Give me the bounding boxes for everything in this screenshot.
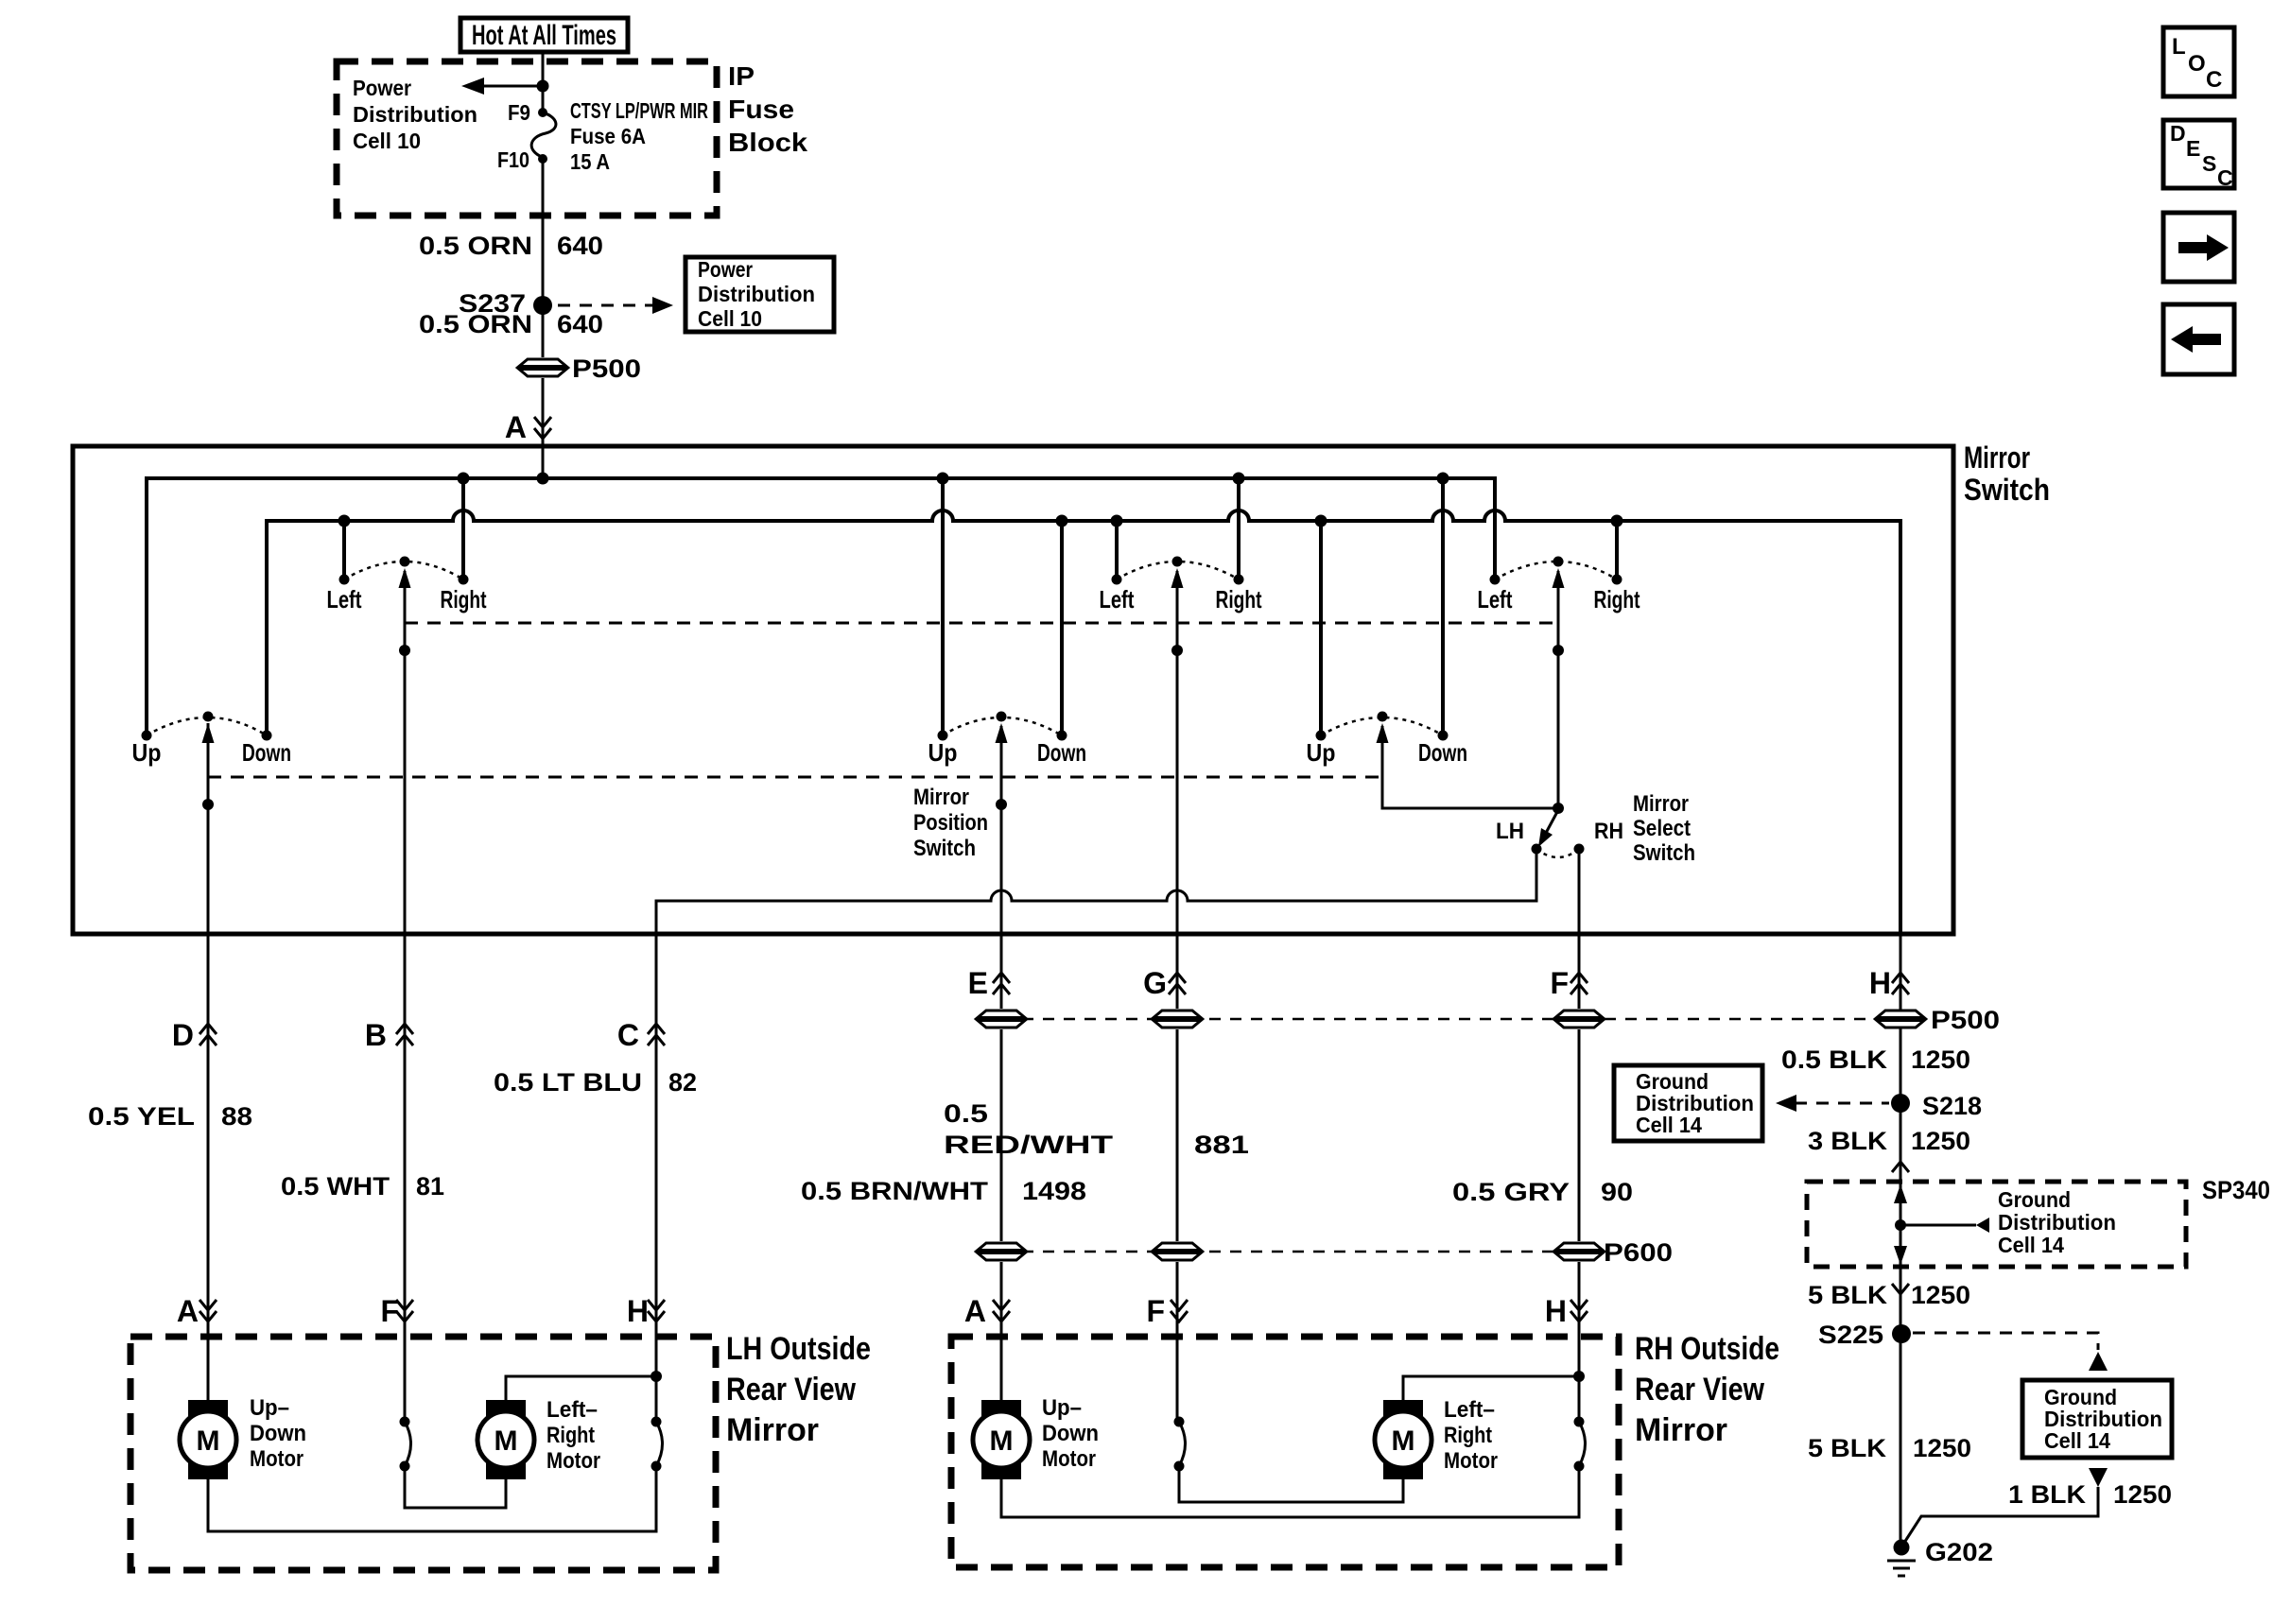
node S218 bbox=[1891, 1092, 1982, 1120]
svg-text:C: C bbox=[617, 1018, 639, 1052]
Mirror Position Switch label bbox=[913, 785, 988, 861]
DESC nav box bbox=[2163, 120, 2234, 190]
svg-text:881: 881 bbox=[1194, 1131, 1249, 1159]
svg-text:Mirror: Mirror bbox=[1635, 1412, 1727, 1448]
svg-text:Power: Power bbox=[353, 76, 411, 100]
svg-text:5 BLK: 5 BLK bbox=[1808, 1434, 1887, 1462]
svg-text:Distribution: Distribution bbox=[698, 282, 815, 306]
svg-text:1250: 1250 bbox=[1913, 1434, 1971, 1462]
svg-text:H: H bbox=[627, 1294, 649, 1328]
connector P500 pin H bbox=[1876, 1006, 2000, 1034]
pin F of RH mirror bbox=[1146, 1294, 1188, 1328]
svg-text:0.5 YEL: 0.5 YEL bbox=[88, 1102, 195, 1131]
RH left-right motor M bbox=[1375, 1397, 1498, 1479]
svg-text:A: A bbox=[964, 1294, 986, 1328]
switch contacts position switch Up/Down bbox=[928, 712, 1087, 768]
svg-text:S225: S225 bbox=[1818, 1321, 1883, 1349]
svg-text:640: 640 bbox=[557, 232, 603, 260]
pin H of mirror switch bbox=[1869, 966, 1909, 1000]
svg-text:0.5 GRY: 0.5 GRY bbox=[1452, 1178, 1570, 1206]
svg-text:A: A bbox=[505, 410, 527, 444]
svg-text:S: S bbox=[2202, 151, 2216, 176]
svg-text:0.5 LT BLU: 0.5 LT BLU bbox=[494, 1068, 642, 1097]
svg-text:Distribution: Distribution bbox=[1998, 1210, 2116, 1235]
wire label 0.5 WHT 81 bbox=[281, 1172, 444, 1201]
Mirror Select Switch bbox=[1496, 791, 1695, 866]
svg-text:Right: Right bbox=[1444, 1423, 1492, 1448]
wire H pin ground chain bbox=[1900, 934, 1902, 1547]
svg-text:Rear View: Rear View bbox=[726, 1372, 856, 1408]
svg-text:Left–: Left– bbox=[547, 1397, 598, 1423]
dashed reference arrow S218 to Ground Distribution Cell 14 bbox=[1776, 1095, 1889, 1112]
svg-text:Mirror: Mirror bbox=[1964, 441, 2030, 475]
svg-text:5 BLK: 5 BLK bbox=[1808, 1281, 1888, 1309]
RH connector contact on H wire bbox=[1574, 1417, 1586, 1472]
node S225 bbox=[1818, 1321, 1911, 1349]
connector P500 row dashed link bbox=[1001, 1018, 1900, 1021]
svg-text:Ground: Ground bbox=[1998, 1187, 2071, 1212]
connector P500 pin E bbox=[977, 1009, 1026, 1029]
svg-text:RH Outside: RH Outside bbox=[1635, 1331, 1779, 1367]
wire bus2 to LH Left contact bbox=[342, 521, 346, 579]
RH Outside Rear View Mirror box bbox=[951, 1331, 1779, 1567]
wire: power bus 1 bbox=[147, 478, 1495, 735]
switch contacts LH mirror Up/Down bbox=[132, 712, 292, 768]
next-page arrow box bbox=[2163, 213, 2234, 282]
svg-text:Motor: Motor bbox=[1042, 1446, 1096, 1472]
svg-text:Switch: Switch bbox=[1964, 473, 2050, 507]
svg-text:LH: LH bbox=[1496, 819, 1524, 844]
svg-text:LH Outside: LH Outside bbox=[726, 1331, 871, 1367]
svg-text:G202: G202 bbox=[1925, 1538, 1993, 1566]
svg-text:H: H bbox=[1869, 966, 1891, 1000]
svg-text:0.5 WHT: 0.5 WHT bbox=[281, 1172, 390, 1201]
connector P600 pin H bbox=[1554, 1238, 1673, 1267]
svg-text:Down: Down bbox=[250, 1421, 306, 1446]
svg-text:Motor: Motor bbox=[547, 1448, 600, 1474]
wire label 0.5 BLK 1250 bbox=[1781, 1045, 1970, 1074]
pin E of mirror switch bbox=[968, 966, 1010, 1000]
svg-text:F10: F10 bbox=[497, 147, 529, 172]
switch contacts position switch Left/Right bbox=[1100, 557, 1262, 614]
dashed gang line Left/Right wipers bbox=[405, 622, 1558, 625]
IP Fuse Block dashed box bbox=[337, 61, 807, 216]
svg-text:L: L bbox=[2172, 34, 2186, 60]
svg-text:1250: 1250 bbox=[1911, 1281, 1970, 1309]
wire RH up/down wiper to select switch bbox=[1382, 726, 1558, 808]
wire bus2 to center Down contact bbox=[1060, 521, 1064, 735]
svg-text:G: G bbox=[1143, 966, 1167, 1000]
wire label 0.5 YEL 88 bbox=[88, 1102, 252, 1131]
svg-text:Up: Up bbox=[132, 738, 162, 767]
svg-text:F: F bbox=[1550, 966, 1569, 1000]
svg-text:Right: Right bbox=[1594, 585, 1640, 613]
wire wiper D column bbox=[202, 723, 214, 1400]
fuse F9/F10 CTSY LP/PWR MIR Fuse 6A 15A bbox=[497, 98, 708, 174]
switch contacts RH mirror Left/Right bbox=[1478, 557, 1640, 614]
single chevron out of SP340 bbox=[1892, 1284, 1909, 1294]
svg-text:Mirror: Mirror bbox=[726, 1412, 819, 1448]
svg-text:Fuse: Fuse bbox=[728, 95, 794, 124]
wire wiper E column bbox=[996, 726, 1007, 1400]
wire label 5 BLK 1250 (lower) bbox=[1808, 1434, 1971, 1462]
wire LH H pin to left-right motor top bbox=[506, 1371, 662, 1400]
svg-text:A: A bbox=[177, 1294, 199, 1328]
Power Distribution Cell 10 reference box bbox=[685, 257, 834, 332]
svg-text:S218: S218 bbox=[1922, 1092, 1982, 1120]
svg-text:1250: 1250 bbox=[1911, 1045, 1970, 1074]
svg-text:RH: RH bbox=[1594, 819, 1623, 844]
wire LH up-down motor return bbox=[208, 1466, 656, 1531]
pin H of LH mirror bbox=[627, 1294, 665, 1328]
Hot At All Times box bbox=[460, 18, 628, 52]
LH left-right motor M bbox=[477, 1397, 600, 1479]
svg-text:1250: 1250 bbox=[2113, 1480, 2172, 1509]
svg-text:Rear View: Rear View bbox=[1635, 1372, 1764, 1408]
svg-text:Up–: Up– bbox=[250, 1395, 289, 1421]
wire select RH contact to pin F bbox=[1578, 849, 1581, 1422]
svg-text:Left–: Left– bbox=[1444, 1397, 1495, 1423]
wire RH up-down motor return bbox=[1001, 1466, 1579, 1517]
svg-text:15 A: 15 A bbox=[570, 149, 610, 174]
svg-text:82: 82 bbox=[668, 1068, 697, 1097]
pin H of RH mirror bbox=[1545, 1294, 1588, 1328]
svg-text:RED/WHT: RED/WHT bbox=[944, 1131, 1114, 1159]
connector P500 (top) bbox=[518, 354, 641, 383]
Ground Distribution Cell 14 reference box (S218) bbox=[1614, 1065, 1762, 1141]
svg-text:M: M bbox=[1392, 1425, 1415, 1457]
ground G202 bbox=[1887, 1538, 1993, 1576]
LH Outside Rear View Mirror box bbox=[130, 1331, 871, 1570]
svg-text:Cell 10: Cell 10 bbox=[698, 306, 762, 331]
connector P500 pin F bbox=[1554, 1009, 1604, 1029]
svg-text:E: E bbox=[968, 966, 988, 1000]
svg-text:Mirror: Mirror bbox=[1633, 791, 1689, 817]
SP340 junction node bbox=[1895, 1219, 1906, 1231]
wire bus2 to center Left contact bbox=[1115, 521, 1119, 579]
Mirror Switch box bbox=[73, 441, 2050, 934]
node S237 bbox=[459, 289, 552, 318]
svg-text:Up–: Up– bbox=[1042, 1395, 1082, 1421]
svg-text:O: O bbox=[2188, 51, 2206, 77]
wire bus1 to RH Down contact bbox=[1441, 478, 1445, 735]
svg-text:640: 640 bbox=[557, 310, 603, 338]
svg-text:CTSY LP/PWR MIR: CTSY LP/PWR MIR bbox=[570, 98, 708, 123]
LH connector contact on H wire bbox=[651, 1417, 663, 1472]
svg-text:B: B bbox=[365, 1018, 387, 1052]
Ground Distribution Cell 14 reference box (G202) bbox=[2022, 1380, 2172, 1458]
wire RH H pin to left-right motor top bbox=[1403, 1371, 1585, 1400]
wire: power bus 2 bbox=[267, 510, 1900, 934]
LH connector contact on F wire bbox=[400, 1417, 411, 1472]
svg-text:Right: Right bbox=[1216, 585, 1262, 613]
svg-text:0.5: 0.5 bbox=[944, 1099, 988, 1128]
svg-text:1498: 1498 bbox=[1022, 1177, 1086, 1205]
wire label 0.5 GRY 90 bbox=[1452, 1178, 1633, 1206]
svg-text:Down: Down bbox=[1042, 1421, 1099, 1446]
RH connector contact on F wire bbox=[1174, 1417, 1186, 1472]
svg-text:Motor: Motor bbox=[250, 1446, 304, 1472]
wire label 0.5 LT BLU 82 bbox=[494, 1068, 697, 1097]
pin F of LH mirror bbox=[380, 1294, 413, 1328]
svg-text:0.5 ORN: 0.5 ORN bbox=[419, 232, 532, 260]
svg-text:Switch: Switch bbox=[1633, 840, 1695, 866]
svg-text:Cell 14: Cell 14 bbox=[1636, 1113, 1702, 1137]
svg-text:M: M bbox=[495, 1425, 518, 1457]
wire label 0.5 RED/WHT 881 bbox=[944, 1099, 1249, 1159]
svg-text:Distribution: Distribution bbox=[353, 102, 477, 127]
svg-text:SP340: SP340 bbox=[2202, 1176, 2270, 1204]
svg-text:0.5 BRN/WHT: 0.5 BRN/WHT bbox=[801, 1177, 989, 1205]
dashed reference arrow from S237 to Power Distribution Cell 10 bbox=[558, 297, 673, 314]
pin A of LH mirror bbox=[177, 1294, 217, 1328]
wire RH left/right wiper to select switch bbox=[1553, 571, 1564, 814]
svg-text:Up: Up bbox=[928, 738, 958, 767]
LOC nav box bbox=[2163, 27, 2234, 96]
svg-text:Fuse 6A: Fuse 6A bbox=[570, 124, 646, 148]
svg-text:E: E bbox=[2186, 136, 2200, 161]
wire arrow to Power Distribution Cell 10 bbox=[353, 76, 543, 153]
wire RH F contact to left-right motor bbox=[1179, 1466, 1403, 1502]
SP340 exit arrow bbox=[1894, 1246, 1907, 1265]
svg-text:IP: IP bbox=[728, 61, 755, 91]
wire select LH contact to pin C bbox=[656, 849, 1536, 1422]
svg-text:H: H bbox=[1545, 1294, 1567, 1328]
svg-text:Right: Right bbox=[441, 585, 487, 613]
svg-text:1250: 1250 bbox=[1911, 1127, 1970, 1155]
connector P600 pin A bbox=[977, 1241, 1026, 1262]
SP340 entry arrow bbox=[1894, 1184, 1907, 1203]
wire F10 to S237 (0.5 ORN 640) bbox=[419, 159, 603, 305]
wire wiper B column bbox=[399, 571, 410, 1422]
svg-text:Select: Select bbox=[1633, 816, 1691, 841]
wire junction to F9 bbox=[542, 86, 545, 112]
1 BLK exit arrow from reference box bbox=[2089, 1468, 2108, 1487]
svg-text:Left: Left bbox=[1478, 585, 1513, 613]
LH up-down motor M bbox=[180, 1395, 306, 1479]
pin G of mirror switch bbox=[1143, 966, 1186, 1000]
svg-text:F9: F9 bbox=[508, 100, 530, 125]
svg-text:Block: Block bbox=[728, 128, 807, 157]
svg-text:Position: Position bbox=[913, 810, 988, 836]
wire wiper G column bbox=[1171, 571, 1183, 1422]
svg-text:Left: Left bbox=[327, 585, 362, 613]
svg-text:M: M bbox=[197, 1425, 220, 1457]
svg-text:Cell 14: Cell 14 bbox=[1998, 1233, 2064, 1257]
svg-text:Hot At All Times: Hot At All Times bbox=[472, 20, 616, 51]
svg-text:P600: P600 bbox=[1604, 1238, 1673, 1267]
svg-text:F: F bbox=[380, 1294, 399, 1328]
svg-text:Cell 10: Cell 10 bbox=[353, 129, 421, 153]
SP340 splice pack dashed box bbox=[1807, 1176, 2270, 1267]
connector P500 pin G bbox=[1153, 1009, 1202, 1029]
svg-text:88: 88 bbox=[221, 1102, 252, 1131]
svg-text:Down: Down bbox=[1037, 738, 1086, 767]
switch contacts LH mirror Left/Right bbox=[327, 557, 487, 614]
svg-text:Up: Up bbox=[1307, 738, 1336, 767]
connector P600 row dashed link bbox=[1001, 1251, 1579, 1253]
wire bus1 to LH Right contact bbox=[461, 478, 465, 579]
single chevron into SP340 bbox=[1892, 1162, 1909, 1172]
wire P500 to mirror switch pin A bbox=[542, 378, 545, 478]
wire bus1 to center Up contact bbox=[941, 478, 945, 735]
wire bus1 to center Right contact bbox=[1237, 478, 1241, 579]
svg-text:81: 81 bbox=[416, 1172, 444, 1201]
wire LH F contact to left-right motor bbox=[405, 1466, 506, 1508]
connector P600 pin F bbox=[1153, 1241, 1202, 1262]
svg-text:D: D bbox=[172, 1018, 194, 1052]
svg-text:Down: Down bbox=[242, 738, 291, 767]
wire 1 BLK to G202 bbox=[1902, 1487, 2098, 1546]
svg-text:1 BLK: 1 BLK bbox=[2008, 1480, 2087, 1509]
pin A of RH mirror bbox=[964, 1294, 1010, 1328]
svg-text:Switch: Switch bbox=[913, 836, 976, 861]
pin D of mirror switch bbox=[172, 1018, 217, 1052]
svg-text:Motor: Motor bbox=[1444, 1448, 1498, 1474]
wire from Hot At All Times to fuse block bbox=[542, 52, 545, 86]
svg-text:0.5 BLK: 0.5 BLK bbox=[1781, 1045, 1888, 1074]
previous-page arrow box bbox=[2163, 304, 2234, 374]
bus junction nodes bbox=[338, 473, 1623, 527]
svg-text:Cell 14: Cell 14 bbox=[2044, 1428, 2110, 1453]
svg-text:Right: Right bbox=[547, 1423, 595, 1448]
svg-text:Mirror: Mirror bbox=[913, 785, 969, 810]
wire bus2 to RH Up contact bbox=[1319, 521, 1323, 735]
svg-text:C: C bbox=[2217, 165, 2233, 190]
pin F of mirror switch bbox=[1550, 966, 1588, 1000]
svg-text:M: M bbox=[990, 1425, 1014, 1457]
wire S237 to connector P500 (0.5 ORN 640) bbox=[419, 305, 603, 357]
switch contacts RH mirror Up/Down bbox=[1307, 712, 1468, 768]
svg-text:P500: P500 bbox=[572, 354, 641, 383]
svg-text:C: C bbox=[2206, 67, 2222, 93]
svg-text:D: D bbox=[2170, 121, 2186, 146]
svg-text:0.5 ORN: 0.5 ORN bbox=[419, 310, 532, 338]
svg-text:F: F bbox=[1146, 1294, 1165, 1328]
wire bus2 to RH Right contact bbox=[1615, 521, 1619, 579]
svg-text:Power: Power bbox=[698, 257, 753, 282]
wire label 5 BLK 1250 (upper) bbox=[1808, 1281, 1970, 1309]
pin B of mirror switch bbox=[365, 1018, 413, 1052]
dashed gang line Up/Down wipers bbox=[208, 776, 1382, 779]
wire label 0.5 BRN/WHT 1498 bbox=[801, 1177, 1086, 1205]
svg-text:Down: Down bbox=[1418, 738, 1467, 767]
RH up-down motor M bbox=[973, 1395, 1099, 1479]
pin A of mirror switch bbox=[505, 410, 551, 444]
svg-text:3 BLK: 3 BLK bbox=[1808, 1127, 1888, 1155]
dashed reference wire S225 to Ground Distribution Cell 14 bbox=[1913, 1333, 2108, 1371]
svg-text:Left: Left bbox=[1100, 585, 1135, 613]
svg-text:P500: P500 bbox=[1931, 1006, 2000, 1034]
pin C of mirror switch bbox=[617, 1018, 665, 1052]
wire label 1 BLK 1250 bbox=[2008, 1480, 2172, 1509]
node: junction to Power Distribution Cell 10 bbox=[537, 80, 549, 93]
SP340 reference arrow to Ground Distribution Cell 14 bbox=[1900, 1187, 2116, 1257]
svg-text:90: 90 bbox=[1601, 1178, 1633, 1206]
wire label 3 BLK 1250 bbox=[1808, 1127, 1970, 1155]
